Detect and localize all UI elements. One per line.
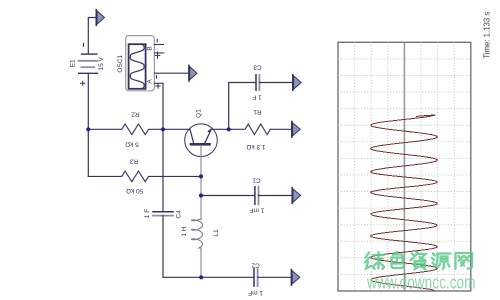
- inductor L1 coil: [192, 220, 203, 249]
- scope trace sine wave: [371, 115, 438, 290]
- oscilloscope display panel: [338, 42, 471, 291]
- svg-text:1 F: 1 F: [144, 209, 151, 218]
- svg-text:www.downcc.com: www.downcc.com: [366, 273, 475, 293]
- resistor R2 with leads: [88, 124, 189, 135]
- transistor Q1 emitter line with arrow: [205, 128, 212, 143]
- capacitor C4: [153, 212, 173, 216]
- capacitor C2: [254, 269, 258, 287]
- B minus sign: [156, 39, 158, 42]
- battery minus sign: [83, 43, 85, 46]
- wire emitter to node: [211, 128, 228, 130]
- A plus sign: [156, 84, 160, 88]
- svg-text:L1: L1: [213, 229, 220, 237]
- svg-text:E1: E1: [69, 59, 76, 67]
- battery E1: [79, 54, 98, 73]
- wire base node to C1: [201, 195, 255, 197]
- B plus sign: [155, 52, 160, 58]
- junction A+ rail / R2: [161, 127, 165, 131]
- wire C3 to ground: [259, 82, 292, 84]
- ground at C2: [291, 270, 299, 286]
- wire node up to C3: [229, 83, 256, 130]
- pin B minus stub: [154, 44, 163, 46]
- watermark 绿色资源网 (drawn strokes): [365, 252, 472, 270]
- pin B plus stub: [154, 52, 163, 54]
- battery plus sign: [81, 81, 85, 85]
- svg-text:C1: C1: [252, 177, 261, 184]
- resistor R1 with leads: [229, 124, 292, 135]
- svg-text:R1: R1: [253, 108, 262, 115]
- ground at C3: [293, 75, 301, 91]
- svg-text:Time: 1.133 s: Time: 1.133 s: [483, 12, 492, 59]
- oscilloscope OSC1 screen: [129, 44, 146, 89]
- svg-text:A: A: [146, 79, 153, 84]
- svg-text:50 kΩ: 50 kΩ: [126, 187, 143, 194]
- svg-text:C2: C2: [251, 262, 260, 269]
- svg-text:1 mF: 1 mF: [250, 206, 265, 213]
- junction left rail / R2: [86, 127, 90, 131]
- transistor base lead gray: [200, 146, 202, 220]
- svg-text:C3: C3: [253, 64, 262, 71]
- junction emitter node: [227, 127, 231, 131]
- ground at C1: [292, 188, 300, 204]
- wire A plus down to C4: [154, 83, 163, 212]
- oscilloscope OSC1 body: [126, 36, 155, 91]
- transistor Q1 collector line: [190, 129, 194, 144]
- wire battery negative to ground: [88, 18, 96, 55]
- scope center axis line: [403, 43, 405, 291]
- junction base / C1: [199, 193, 203, 197]
- inductor L1 lower lead: [200, 248, 202, 277]
- wire C2 to ground: [258, 276, 291, 278]
- svg-text:1 H: 1 H: [181, 226, 188, 236]
- ground at A minus: [189, 65, 197, 81]
- junction L1 / bottom rail: [199, 275, 203, 279]
- wire battery positive down left rail: [87, 73, 89, 176]
- A minus sign: [156, 75, 158, 78]
- ground at R1: [292, 122, 300, 138]
- svg-text:OSC1: OSC1: [117, 54, 124, 72]
- transistor Q1 circle: [185, 124, 218, 157]
- svg-text:R3: R3: [129, 158, 138, 165]
- capacitor C3: [256, 75, 259, 90]
- wire C4 down and bottom rail: [163, 216, 254, 278]
- svg-text:1 mF: 1 mF: [248, 289, 263, 296]
- svg-text:1.3 kΩ: 1.3 kΩ: [246, 143, 265, 150]
- svg-text:B: B: [146, 46, 153, 50]
- svg-text:Q1: Q1: [196, 109, 203, 118]
- resistor R3 with leads: [88, 171, 201, 182]
- OSC1 screen waveform: [130, 45, 144, 89]
- svg-text:1 F: 1 F: [252, 93, 261, 100]
- svg-text:R2: R2: [131, 110, 140, 117]
- ground G1 top: [96, 10, 104, 26]
- svg-text:15 V: 15 V: [98, 56, 105, 70]
- scope grid dotted lines: [338, 42, 471, 291]
- capacitor C1: [255, 187, 259, 205]
- svg-text:5 kΩ: 5 kΩ: [125, 140, 139, 147]
- junction base / R3: [199, 174, 203, 178]
- svg-text:C4: C4: [175, 210, 182, 219]
- wire A minus to ground: [154, 72, 188, 74]
- wire C1 to ground: [259, 195, 292, 197]
- transistor Q1 base bar: [191, 143, 210, 146]
